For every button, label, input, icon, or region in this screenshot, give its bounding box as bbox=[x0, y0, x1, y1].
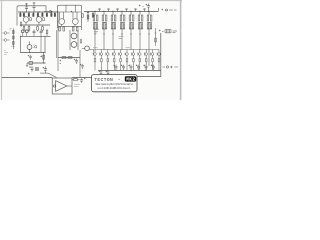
speaker triangle bbox=[56, 81, 67, 92]
right cluster box bbox=[165, 30, 171, 33]
wire y63 bbox=[27, 62, 46, 64]
PI box outline bbox=[58, 5, 82, 30]
page left border bbox=[1, 0, 3, 100]
svg-text:MK2: MK2 bbox=[126, 78, 135, 83]
bottom long wire left bbox=[2, 77, 52, 79]
x80 box bbox=[80, 40, 82, 44]
jack J1 bbox=[4, 32, 7, 35]
signal arrow bbox=[44, 6, 53, 13]
wire mid row bbox=[20, 51, 46, 53]
rail end symbols bbox=[159, 8, 177, 12]
bottom long wire mid bbox=[72, 77, 91, 79]
output tube group 7 bbox=[147, 12, 152, 67]
svg-text:Valve Guitar Amplifier 100W S: Valve Guitar Amplifier 100W Schematic v2 bbox=[95, 82, 134, 86]
V4 pins bbox=[73, 5, 77, 26]
resistor R19 bbox=[62, 57, 66, 59]
title MK2 badge bbox=[125, 76, 136, 81]
driver transistors row bbox=[93, 50, 160, 59]
dropper R7 bbox=[46, 12, 47, 17]
jack J2 bbox=[4, 39, 7, 42]
HT rail bbox=[84, 11, 158, 13]
cap x82 low + bbox=[80, 64, 84, 69]
fb cap + bbox=[80, 78, 85, 83]
V5 wires bbox=[70, 30, 78, 50]
output tube group 3 bbox=[111, 8, 118, 50]
dropper R1 bbox=[20, 12, 21, 17]
dropper R5 bbox=[37, 12, 38, 17]
capacitor C8 + bbox=[43, 67, 47, 74]
vertical to psu bbox=[43, 52, 45, 63]
tube V3 bbox=[59, 19, 65, 25]
transistor Q0 bbox=[85, 46, 90, 51]
cathode resistor Rk8 bbox=[76, 27, 78, 31]
standby wire bbox=[40, 72, 48, 74]
vertical x41 bbox=[40, 36, 42, 52]
pot VR1 marks bbox=[33, 45, 35, 48]
output tube group 1 bbox=[93, 8, 100, 50]
wire left vertical bbox=[20, 36, 22, 52]
dropper R7c bbox=[54, 12, 55, 17]
pot VR1 bbox=[27, 45, 32, 50]
svg-text:TECTON: TECTON bbox=[94, 77, 113, 83]
output tube group 6 bbox=[138, 8, 145, 50]
X box bbox=[36, 68, 39, 71]
jack labels bbox=[10, 29, 12, 31]
svg-text:rev 2.1 DK 24.08.2004 sheet: rev 2.1 DK 24.08.2004 sheet 1 bbox=[98, 86, 132, 90]
bias text cluster1 bbox=[94, 30, 99, 34]
psu box right edge bbox=[160, 33, 162, 77]
speaker circle bbox=[53, 85, 55, 87]
plus above rail bbox=[139, 5, 144, 7]
dropper R2 bbox=[23, 12, 24, 17]
vertical x45 bbox=[44, 36, 46, 52]
capacitor C7 + bbox=[74, 59, 78, 64]
bypass cap circle a bbox=[21, 30, 24, 33]
cap above rail bbox=[146, 4, 150, 12]
PI edge box bbox=[82, 14, 84, 18]
phase inverter V5b bbox=[71, 42, 77, 48]
cathode resistor Rk7 bbox=[72, 27, 74, 31]
output tube group 2 bbox=[102, 8, 109, 50]
connector ticks bbox=[23, 33, 48, 37]
long vertical x80 bbox=[79, 50, 81, 77]
dropper R3 bbox=[28, 12, 29, 17]
tube V2 bbox=[36, 17, 42, 23]
capacitor C9 + bbox=[29, 66, 33, 72]
plus marks x59 bbox=[60, 60, 62, 64]
PI inner rail bbox=[58, 11, 81, 13]
preamp rail bbox=[18, 11, 58, 13]
input chain R16 bbox=[13, 29, 15, 50]
cathode resistor Rk3 bbox=[37, 26, 39, 32]
cathode resistor Rk6 bbox=[63, 27, 65, 31]
capacitor C1 bbox=[25, 3, 28, 12]
V1 grid resistor bbox=[30, 18, 32, 21]
dropper R4 bbox=[33, 12, 34, 17]
cathode resistor Rk5 bbox=[59, 27, 61, 31]
rail component 2 bbox=[92, 12, 94, 19]
emitter resistors row bbox=[94, 59, 160, 71]
cathode resistor Rk1 bbox=[23, 26, 25, 32]
page right border bbox=[180, 0, 182, 100]
parallel edge bbox=[55, 30, 57, 58]
bias text cluster2 bbox=[119, 37, 124, 39]
right cluster marks bbox=[159, 30, 177, 33]
cathode resistor Rk2 bbox=[28, 26, 30, 32]
wire row2 bbox=[20, 35, 51, 37]
cathode resistor Rk4 bbox=[42, 26, 44, 32]
V2 grid resistor bbox=[43, 18, 45, 21]
capacitor C5 bbox=[40, 30, 43, 35]
filter caps + row bbox=[113, 65, 155, 71]
speaker out wire bbox=[67, 85, 72, 87]
right aux vertical bbox=[155, 28, 157, 46]
plus mark bbox=[40, 56, 42, 58]
resistor R17 bbox=[46, 30, 48, 34]
resistor R20 bbox=[68, 57, 72, 59]
rail dots bbox=[20, 12, 56, 13]
anode row wire bbox=[20, 25, 81, 26]
left end drop bbox=[26, 63, 28, 67]
page top border bbox=[0, 0, 182, 2]
dropper R6 bbox=[42, 12, 43, 17]
rail resistor bbox=[87, 12, 89, 23]
ground bus bbox=[98, 69, 161, 71]
box on vertical bbox=[43, 55, 45, 59]
chain label bbox=[4, 46, 15, 50]
title block bbox=[92, 75, 137, 92]
caps below bus bbox=[99, 70, 103, 75]
tube V4 bbox=[72, 19, 78, 25]
transistor row text bbox=[93, 47, 130, 49]
dropper R7b bbox=[51, 12, 52, 17]
output terminals bbox=[163, 66, 179, 69]
resistor on wire bbox=[29, 62, 33, 65]
capacitor C4 bbox=[33, 30, 36, 35]
cap above resistor + bbox=[28, 55, 32, 60]
V3 pins bbox=[60, 5, 67, 26]
phase inverter V5a bbox=[71, 33, 77, 39]
output tube group 5 bbox=[129, 8, 136, 50]
center section left edge bbox=[57, 12, 59, 71]
preamp box top edge bbox=[17, 6, 46, 26]
svg-text:-: - bbox=[118, 77, 121, 83]
fb resistor bbox=[72, 79, 80, 81]
left edge box bbox=[20, 22, 22, 26]
bottom long wire right bbox=[137, 76, 161, 78]
bypass cap circle b bbox=[25, 30, 28, 33]
speaker box bbox=[52, 78, 72, 94]
small mark bbox=[28, 73, 30, 75]
tube V1 bbox=[23, 17, 29, 23]
center bottom rail bbox=[58, 57, 80, 59]
junction dots bbox=[20, 11, 150, 71]
pot aux circle bbox=[35, 46, 37, 48]
Q0 wires bbox=[82, 48, 94, 52]
output tube group 4 bbox=[120, 8, 127, 50]
standby switch bbox=[48, 73, 57, 77]
left small text bbox=[4, 53, 8, 55]
fb tiny text bbox=[74, 85, 80, 87]
capacitor C2 bbox=[33, 2, 36, 12]
